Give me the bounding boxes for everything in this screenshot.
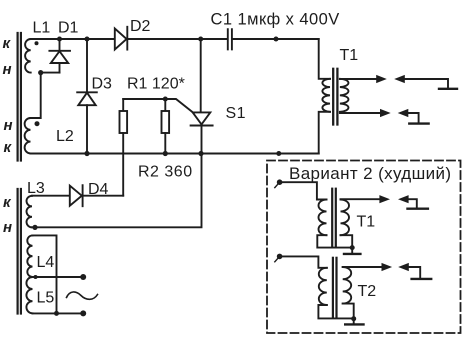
dashed box (Variant 2) [267,161,461,334]
wire terminal tick (box T1) [275,182,280,187]
svg-text:T1: T1 [357,214,376,231]
svg-text:н: н [4,117,13,134]
AC tilde symbol [67,292,98,299]
svg-text:L4: L4 [37,254,55,271]
wire T2 primary bottom lead [318,305,353,318]
node junction R1 top [163,97,168,102]
node terminal box T1 [277,179,283,185]
wire to top electrode [405,79,448,88]
spark gap arrow left (box T1) [398,195,409,203]
node junction L1 bottom [38,70,43,75]
svg-text:D3: D3 [92,76,113,93]
spark gap arrow right (box T1) [379,195,390,203]
winding L3 [27,196,33,228]
spark gap arrow left (T2) [398,263,409,271]
node junction S1 branch on top rail [198,37,203,42]
core box T1 [332,189,336,247]
winding L5 [26,277,32,313]
core T2 [333,258,337,317]
node junction box T1 ground [350,245,355,250]
wire terminal tick (T2) [275,256,280,261]
svg-text:к: к [4,139,13,156]
node dot on bottom rail [276,151,281,156]
resistor R2 [120,99,128,196]
svg-text:L3: L3 [27,180,45,197]
wire to bottom electrode [408,113,418,122]
wire T1 secondary top to spark gap [340,78,377,80]
node L1 polarity dot [35,41,39,45]
wire to electrode (box T1) [408,199,416,207]
wire T1 secondary bottom to spark gap [340,112,380,114]
winding T1 secondary [340,79,349,112]
diode D1 [49,39,70,73]
svg-text:н: н [3,61,12,78]
wire L1 bottom to L2 top [31,73,41,118]
core (bottom-left, for L3/L4/L5) [18,189,21,314]
diode D2 [115,27,128,50]
node junction S1 bottom rail [198,151,203,156]
svg-text:к: к [3,194,12,211]
capacitor C1 [228,29,232,49]
wire L3 top to D4 [32,195,70,197]
wire T2 secondary top to spark gap [343,266,382,268]
node junction D1 top on rail [57,37,62,42]
wire bottom rail [31,153,319,155]
svg-text:T2: T2 [358,283,377,300]
wire bottom output [33,312,84,314]
wire to electrode (T2) [409,267,421,278]
winding box T1 primary [319,200,327,236]
wire box T1 primary top lead [280,182,327,199]
spark gap arrow right (bottom) [380,109,391,117]
wire T1 primary bottom lead [319,112,330,154]
node output terminal (tap) [80,274,86,280]
node L2 polarity dot [35,121,40,126]
svg-text:T1: T1 [340,47,359,64]
svg-text:Вариант 2 (худший): Вариант 2 (худший) [289,164,451,183]
wire T2 primary top lead [280,256,327,267]
svg-text:L5: L5 [37,290,55,307]
svg-text:L1: L1 [33,20,51,37]
winding T2 primary [319,268,327,305]
node tap polarity dot [34,275,38,279]
diode D4 [70,185,83,206]
electrode (box T1) [408,207,428,209]
node junction tie line bottom [54,311,59,316]
electrode (top) [439,88,457,90]
resistor R1 [162,99,170,154]
thyristor S1 [191,112,213,125]
svg-text:R2 360: R2 360 [138,164,193,181]
svg-text:S1: S1 [226,105,247,122]
spark gap arrow right (top) [376,75,387,83]
node L3 polarity dot [32,225,37,230]
node junction T2 ground [351,316,356,321]
wire T2 secondary bottom to ground [343,304,354,324]
electrode (bottom) [409,122,428,124]
wire R-net top (to S1 gate) [123,99,193,112]
node output terminal (bottom) [80,310,86,316]
winding L1 [25,39,31,73]
winding T2 secondary [343,267,352,304]
winding L4 [27,235,32,277]
wire top rail (C1 right plate to T1 primary top corner) [233,38,319,40]
diode D3 [77,39,97,154]
wire top rail (L1 top to C1 left plate) [31,38,227,40]
wire S1 anode branch [200,39,202,112]
winding T1 primary [322,79,330,112]
winding box T1 secondary [341,200,350,236]
spark gap arrow left (bottom) [398,109,409,117]
wire L4 top tie to L5 bottom [33,235,57,313]
ground bar (T2) [345,323,363,325]
node junction D3 bottom on rail [84,151,89,156]
svg-text:к: к [3,35,12,52]
svg-text:D4: D4 [88,181,109,198]
node dot on top rail right of C1 [274,37,279,42]
node junction R1 bottom rail [163,151,168,156]
wire S1 cathode down and left to L3 bottom [32,126,202,228]
svg-text:D2: D2 [130,18,151,35]
svg-text:R1 120*: R1 120* [127,76,185,93]
electrode (T2) [412,278,432,280]
winding L2 [25,118,31,153]
core T1 [333,69,337,125]
wire center tap output [33,276,84,278]
wire D1 anode to L1 bottom [41,72,60,74]
svg-text:L2: L2 [56,128,74,145]
core (top-left, for L1/L2) [18,33,21,161]
svg-text:D1: D1 [58,20,79,37]
node terminal T2 [277,254,283,260]
spark gap arrow left (top) [394,75,405,83]
wire T1 primary top lead [319,39,330,79]
ground bar (box T1) [344,253,360,255]
svg-text:н: н [3,219,12,236]
node junction D3 top on rail [85,37,90,42]
wire box T1 secondary top to spark gap [341,198,380,200]
wire box T1 primary bottom lead [317,235,352,247]
wire box T1 secondary bottom to ground [341,235,353,253]
svg-text:C1 1мкф x 400V: C1 1мкф x 400V [211,11,340,29]
spark gap arrow right (T2) [382,263,393,271]
wire D4 cathode to R2 bottom [83,195,124,197]
